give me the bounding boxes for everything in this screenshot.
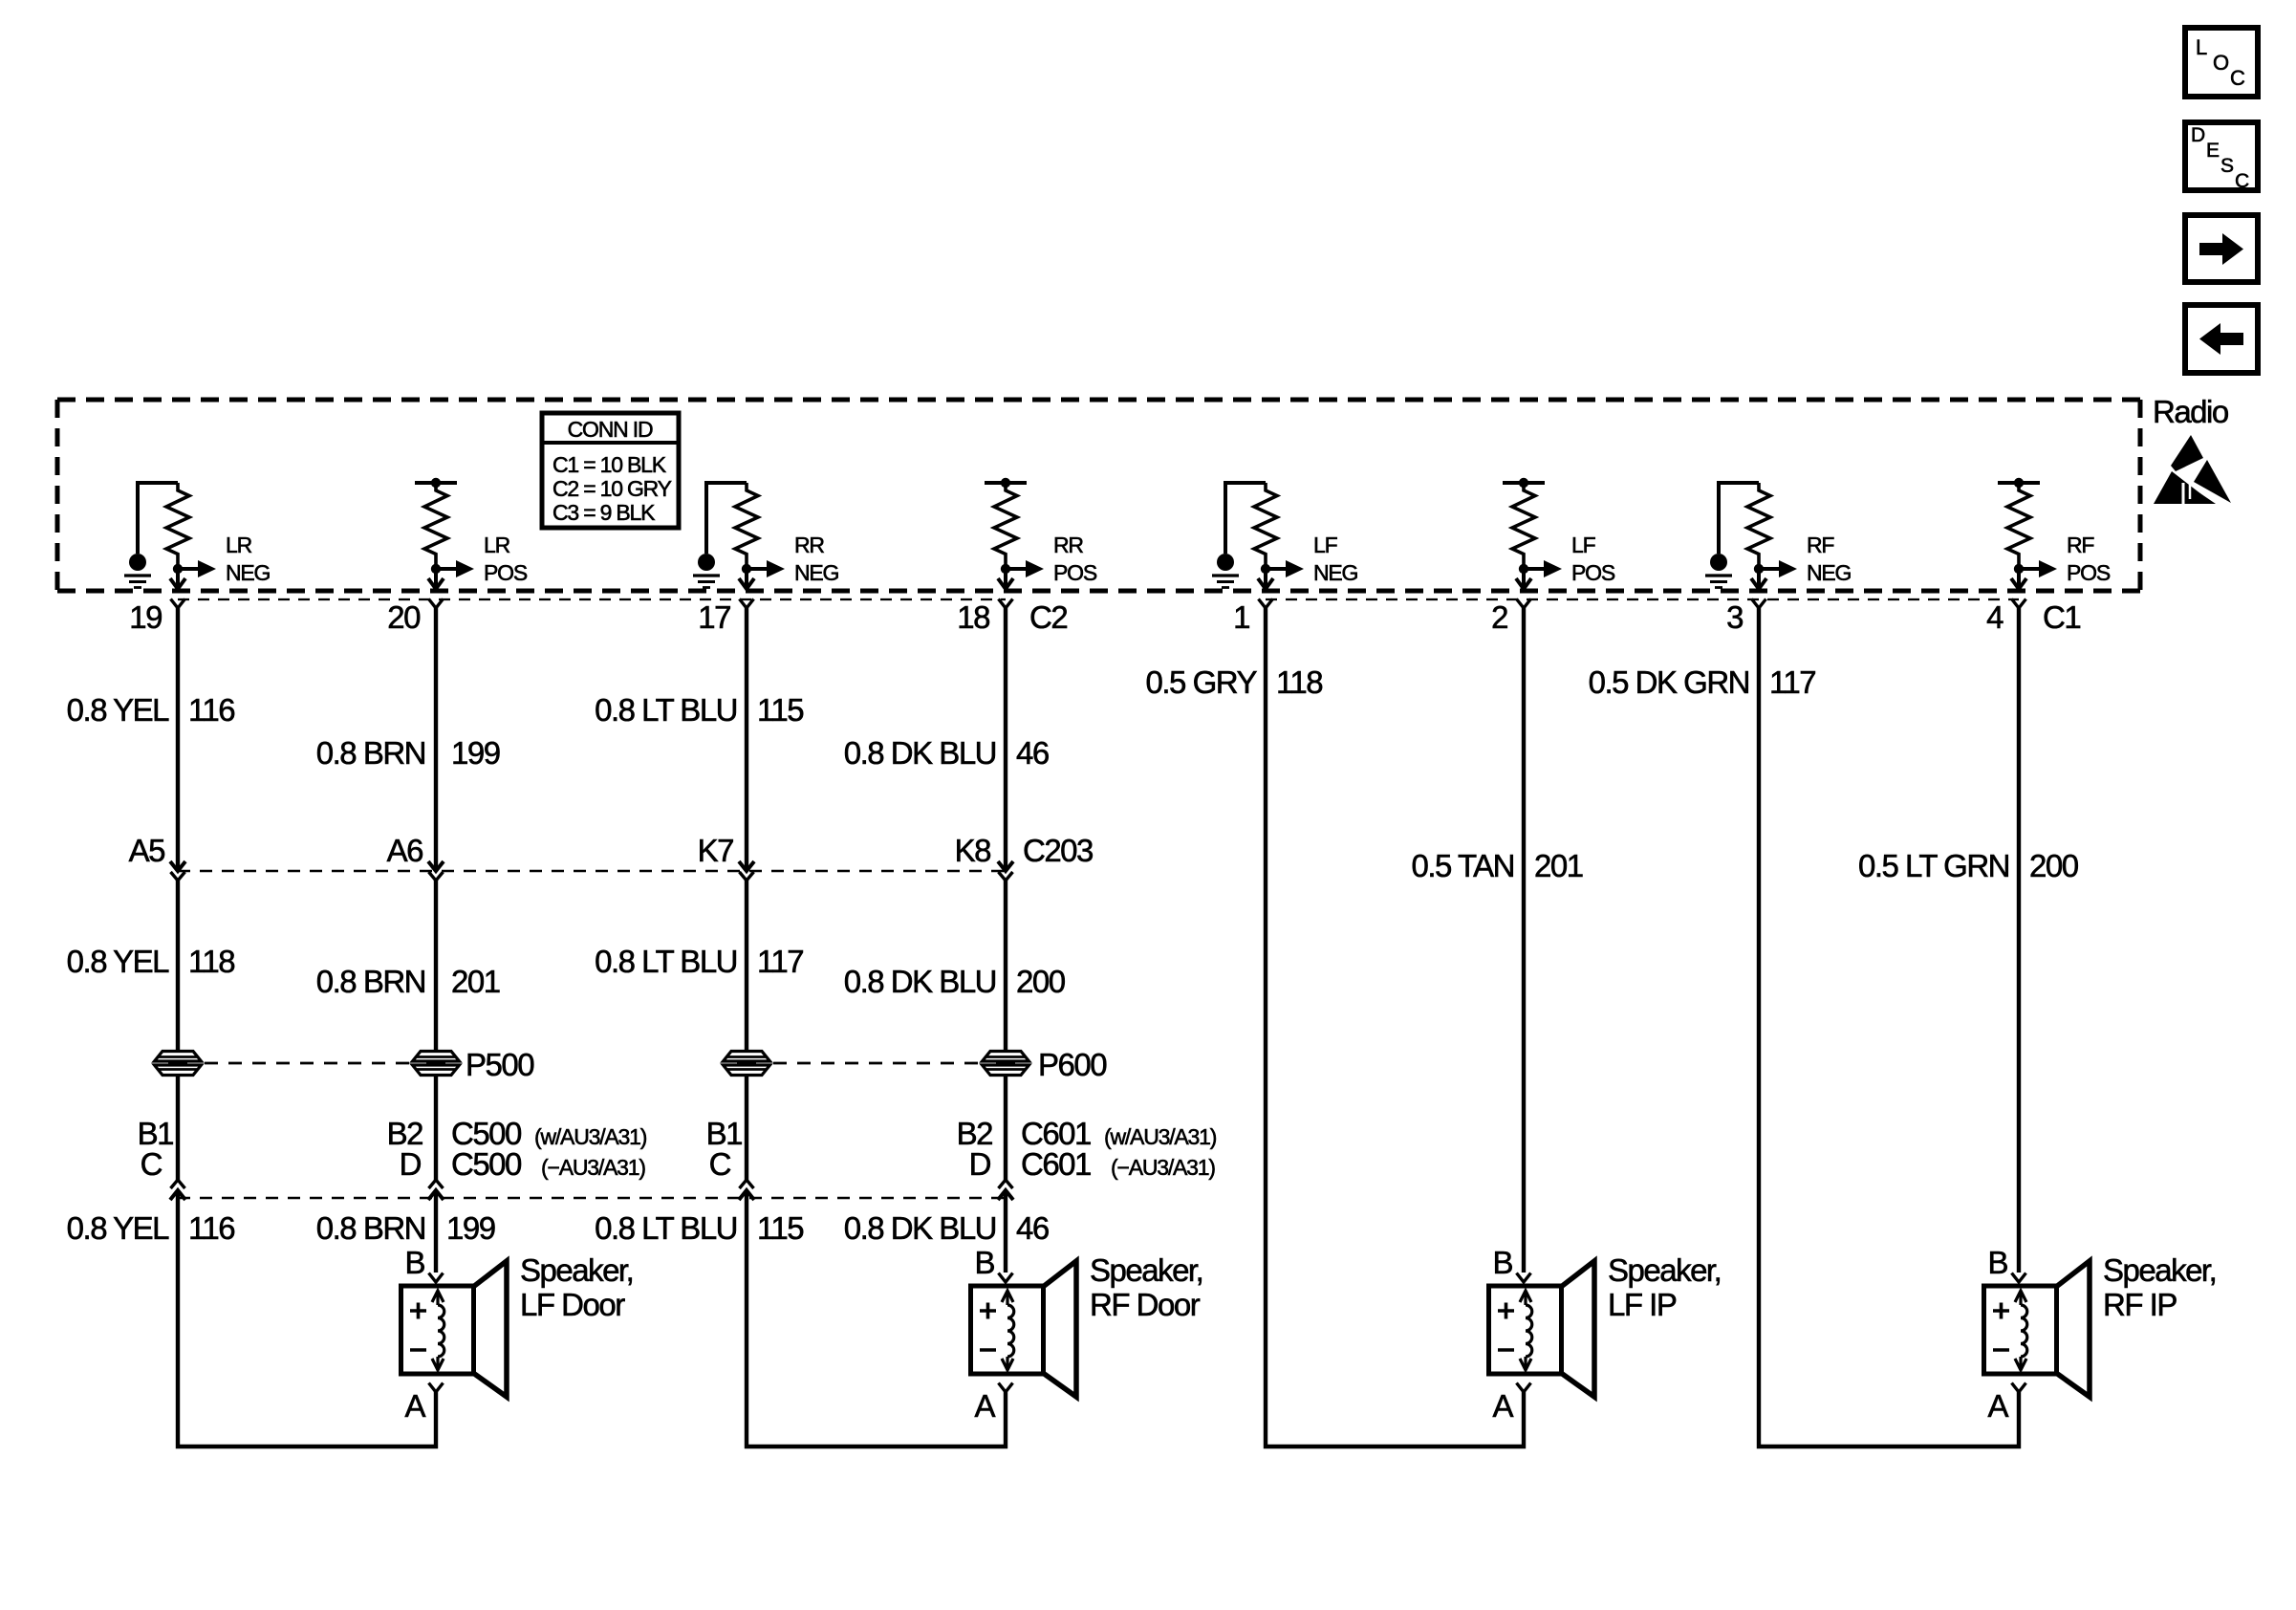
svg-text:0.8 LT BLU: 0.8 LT BLU	[595, 1210, 737, 1246]
svg-text:118: 118	[188, 944, 234, 979]
svg-text:A5: A5	[129, 833, 165, 868]
svg-text:20: 20	[387, 599, 421, 635]
svg-text:0.8 YEL: 0.8 YEL	[67, 944, 169, 979]
svg-text:A: A	[404, 1388, 425, 1424]
svg-text:Speaker,: Speaker,	[520, 1252, 633, 1288]
svg-text:0.5 LT GRN: 0.5 LT GRN	[1858, 848, 2009, 883]
svg-text:0.8 BRN: 0.8 BRN	[316, 964, 425, 999]
svg-text:C2 = 10 GRY: C2 = 10 GRY	[552, 476, 672, 501]
svg-text:0.8 DK BLU: 0.8 DK BLU	[844, 735, 996, 771]
svg-text:B: B	[1492, 1245, 1512, 1280]
svg-text:P600: P600	[1038, 1047, 1107, 1082]
svg-text:B: B	[404, 1245, 424, 1280]
svg-text:199: 199	[451, 735, 500, 771]
svg-text:117: 117	[757, 944, 803, 979]
svg-text:B: B	[974, 1245, 994, 1280]
svg-text:C: C	[2230, 66, 2245, 90]
svg-text:(−AU3/A31): (−AU3/A31)	[1111, 1155, 1215, 1180]
svg-text:46: 46	[1016, 1210, 1049, 1246]
svg-text:L: L	[2196, 35, 2207, 59]
svg-text:D: D	[400, 1146, 422, 1182]
svg-text:RF: RF	[1807, 533, 1834, 557]
svg-text:POS: POS	[2067, 560, 2111, 585]
svg-text:200: 200	[1016, 964, 1066, 999]
svg-text:3: 3	[1726, 599, 1743, 635]
svg-text:19: 19	[129, 599, 162, 635]
svg-text:C601: C601	[1021, 1146, 1091, 1182]
svg-text:E: E	[2206, 140, 2220, 162]
svg-text:RF IP: RF IP	[2103, 1287, 2177, 1322]
svg-text:D: D	[969, 1146, 991, 1182]
svg-text:17: 17	[698, 599, 730, 635]
svg-text:1: 1	[1233, 599, 1249, 635]
svg-text:C203: C203	[1023, 833, 1093, 868]
svg-text:117: 117	[1769, 664, 1815, 700]
svg-text:CONN ID: CONN ID	[568, 417, 653, 442]
svg-text:LR: LR	[484, 533, 510, 557]
svg-text:0.8 LT BLU: 0.8 LT BLU	[595, 692, 737, 728]
svg-text:NEG: NEG	[1313, 560, 1358, 585]
svg-text:115: 115	[757, 692, 803, 728]
svg-text:NEG: NEG	[794, 560, 839, 585]
svg-text:RF Door: RF Door	[1090, 1287, 1201, 1322]
svg-text:Speaker,: Speaker,	[1608, 1252, 1721, 1288]
svg-text:A: A	[1987, 1388, 2008, 1424]
svg-text:2: 2	[1491, 599, 1507, 635]
svg-text:S: S	[2220, 155, 2234, 177]
svg-text:0.8 BRN: 0.8 BRN	[316, 1210, 425, 1246]
svg-text:0.8 YEL: 0.8 YEL	[67, 692, 169, 728]
svg-text:K8: K8	[955, 833, 991, 868]
svg-text:0.8 LT BLU: 0.8 LT BLU	[595, 944, 737, 979]
svg-text:118: 118	[1276, 664, 1322, 700]
svg-text:LF: LF	[1313, 533, 1338, 557]
svg-text:C3 = 9 BLK: C3 = 9 BLK	[552, 500, 656, 525]
svg-text:D: D	[2191, 124, 2205, 146]
svg-text:O: O	[2213, 51, 2229, 75]
svg-text:A: A	[974, 1388, 995, 1424]
svg-text:46: 46	[1016, 735, 1049, 771]
svg-text:116: 116	[188, 692, 234, 728]
svg-text:POS: POS	[1571, 560, 1615, 585]
svg-text:LF: LF	[1571, 533, 1596, 557]
svg-text:C: C	[2235, 170, 2249, 192]
svg-text:B: B	[1987, 1245, 2007, 1280]
svg-text:4: 4	[1986, 599, 2004, 635]
svg-text:0.5 TAN: 0.5 TAN	[1412, 848, 1515, 883]
svg-text:C: C	[141, 1146, 162, 1182]
svg-text:RR: RR	[794, 533, 824, 557]
svg-text:A6: A6	[387, 833, 423, 868]
svg-text:0.5 GRY: 0.5 GRY	[1146, 664, 1258, 700]
svg-text:201: 201	[1534, 848, 1583, 883]
svg-text:C500: C500	[451, 1146, 522, 1182]
svg-text:199: 199	[446, 1210, 495, 1246]
svg-text:18: 18	[957, 599, 989, 635]
svg-text:LF IP: LF IP	[1608, 1287, 1677, 1322]
svg-text:Speaker,: Speaker,	[1090, 1252, 1202, 1288]
svg-text:201: 201	[451, 964, 500, 999]
svg-text:0.8 DK BLU: 0.8 DK BLU	[844, 964, 996, 999]
svg-text:NEG: NEG	[226, 560, 271, 585]
svg-text:RF: RF	[2067, 533, 2094, 557]
svg-text:116: 116	[188, 1210, 234, 1246]
svg-text:0.8 YEL: 0.8 YEL	[67, 1210, 169, 1246]
svg-text:200: 200	[2029, 848, 2079, 883]
svg-text:(w/AU3/A31): (w/AU3/A31)	[534, 1124, 647, 1149]
svg-text:LR: LR	[226, 533, 252, 557]
svg-text:P500: P500	[466, 1047, 534, 1082]
svg-text:0.8 DK BLU: 0.8 DK BLU	[844, 1210, 996, 1246]
svg-text:C1 = 10 BLK: C1 = 10 BLK	[552, 452, 667, 477]
svg-text:C: C	[709, 1146, 731, 1182]
svg-text:Speaker,: Speaker,	[2103, 1252, 2216, 1288]
svg-text:NEG: NEG	[1807, 560, 1852, 585]
svg-text:C1: C1	[2043, 599, 2080, 635]
svg-text:A: A	[1492, 1388, 1513, 1424]
svg-text:C2: C2	[1029, 599, 1067, 635]
svg-text:POS: POS	[1053, 560, 1097, 585]
svg-text:K7: K7	[698, 833, 734, 868]
svg-text:POS: POS	[484, 560, 528, 585]
svg-text:0.8 BRN: 0.8 BRN	[316, 735, 425, 771]
svg-text:0.5 DK GRN: 0.5 DK GRN	[1589, 664, 1749, 700]
svg-text:(w/AU3/A31): (w/AU3/A31)	[1104, 1124, 1217, 1149]
svg-text:RR: RR	[1053, 533, 1083, 557]
svg-text:LF Door: LF Door	[520, 1287, 625, 1322]
svg-text:(−AU3/A31): (−AU3/A31)	[541, 1155, 645, 1180]
svg-text:Radio: Radio	[2153, 394, 2228, 429]
svg-text:115: 115	[757, 1210, 803, 1246]
